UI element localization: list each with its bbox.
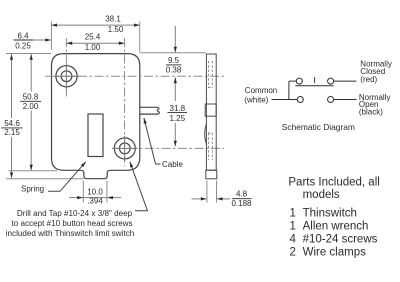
- terminal T4: [328, 97, 334, 103]
- svg-text:9.5: 9.5: [168, 56, 180, 65]
- hole H2 outer: [114, 138, 135, 159]
- hole H1 inner: [61, 71, 72, 82]
- dim 6.4 arrow: [33, 39, 51, 41]
- stub to NC pole: [289, 80, 296, 82]
- ext line side right: [216, 181, 218, 203]
- side body: [206, 54, 216, 170]
- svg-text:Allen wrench: Allen wrench: [303, 221, 369, 233]
- svg-text:.394: .394: [87, 197, 103, 206]
- fraction bars: [1, 40, 251, 199]
- bus vertical: [288, 81, 290, 99]
- centerline hole H2 horizontal: [112, 147, 224, 149]
- ext line plate left top: [50, 22, 52, 51]
- side cable tab: [205, 104, 216, 116]
- svg-text:1.25: 1.25: [170, 114, 186, 123]
- dim 10.0 line right: [107, 197, 121, 199]
- note drill-and-tap: [6, 209, 135, 238]
- svg-text:2: 2: [290, 246, 296, 258]
- dim 50.8 bottom arrow: [30, 111, 32, 171]
- contact bar: [295, 85, 333, 87]
- centerline hole H2 vertical: [124, 38, 126, 166]
- svg-text:(black): (black): [359, 108, 383, 117]
- svg-text:2.15: 2.15: [4, 128, 20, 137]
- ext line plate top right: [140, 52, 206, 54]
- terminal T1: [296, 78, 302, 84]
- svg-text:1: 1: [290, 208, 296, 220]
- svg-text:10.0: 10.0: [87, 187, 103, 196]
- ext line side left: [206, 181, 208, 203]
- svg-text:4.8: 4.8: [236, 189, 248, 198]
- centerline hole H1 horizontal: [45, 75, 225, 77]
- svg-text:Wire clamps: Wire clamps: [303, 246, 367, 258]
- svg-text:0.25: 0.25: [15, 41, 31, 50]
- svg-text:2.00: 2.00: [23, 102, 39, 111]
- svg-text:1.00: 1.00: [85, 43, 101, 52]
- svg-text:1: 1: [290, 221, 296, 233]
- ext line tab right: [106, 181, 108, 203]
- dim 10.0 line left: [69, 197, 83, 199]
- dim 54.6 top arrow: [11, 54, 13, 118]
- label common: [244, 59, 392, 116]
- terminal T3: [297, 97, 303, 103]
- spring slot: [88, 114, 103, 157]
- svg-text:included with Thinswitch limit: included with Thinswitch limit switch: [6, 229, 135, 238]
- dim 4.8 line left: [192, 198, 207, 200]
- svg-text:models: models: [303, 189, 340, 201]
- svg-text:(white): (white): [244, 95, 268, 104]
- svg-text:Common: Common: [245, 86, 277, 95]
- svg-text:25.4: 25.4: [85, 33, 101, 42]
- dim 50.8 top arrow: [30, 54, 32, 91]
- svg-text:Spring: Spring: [21, 185, 44, 194]
- svg-text:Cable: Cable: [162, 160, 183, 169]
- dim 9.5 line: [174, 26, 176, 52]
- wire NO: [334, 99, 357, 101]
- svg-text:0.38: 0.38: [166, 65, 182, 74]
- centerline hole H1 vertical: [65, 38, 67, 97]
- crosshair solid segments over holes: [54, 64, 137, 162]
- leader cable: [144, 118, 161, 164]
- svg-text:Drill and Tap #10-24 x 3/8" de: Drill and Tap #10-24 x 3/8" deep: [17, 209, 133, 218]
- svg-text:#10-24 screws: #10-24 screws: [303, 233, 378, 245]
- wire NC: [334, 80, 357, 82]
- svg-text:50.8: 50.8: [23, 93, 39, 102]
- wire common: [272, 99, 298, 101]
- dim 10.0 bar: [83, 197, 107, 199]
- side cable loop: [205, 123, 207, 144]
- terminal T2: [328, 78, 334, 84]
- ext line bottom edge left: [9, 170, 58, 172]
- svg-text:54.6: 54.6: [4, 119, 20, 128]
- svg-text:4: 4: [290, 233, 297, 245]
- hole H2 inner: [119, 143, 130, 154]
- svg-text:Parts Included, all: Parts Included, all: [288, 177, 379, 189]
- svg-text:Thinswitch: Thinswitch: [303, 208, 357, 220]
- side bottom tab: [206, 170, 217, 179]
- svg-text:31.8: 31.8: [170, 104, 186, 113]
- ext line tab left: [82, 181, 84, 203]
- svg-text:(red): (red): [360, 75, 377, 84]
- svg-text:Schematic Diagram: Schematic Diagram: [282, 122, 355, 132]
- leader drill: [130, 162, 148, 211]
- dim 38.1 line: [51, 24, 139, 26]
- ext line plate right top: [139, 22, 141, 53]
- hidden hole bottom: [208, 133, 210, 160]
- ext line tab bottom left: [6, 178, 84, 180]
- svg-text:6.4: 6.4: [17, 32, 29, 41]
- hole H1 outer: [56, 66, 77, 87]
- dim 54.6 bottom arrow: [11, 137, 13, 178]
- svg-text:to accept #10 button head scre: to accept #10 button head screws: [11, 219, 132, 228]
- dim 25.4 line: [66, 42, 124, 44]
- actuator tick: [314, 77, 316, 83]
- dim 31.8 bottom arrow: [174, 123, 176, 146]
- cable tab: [140, 107, 160, 114]
- dim 4.8 line right: [217, 198, 230, 200]
- svg-text:1.50: 1.50: [108, 25, 124, 34]
- svg-text:0.188: 0.188: [231, 199, 252, 208]
- dim 31.8 top arrow: [174, 78, 176, 102]
- dim 25.4 arrows: [66, 42, 124, 45]
- ext line plate top left: [6, 53, 51, 55]
- hidden hole top: [208, 61, 213, 160]
- svg-text:38.1: 38.1: [105, 15, 121, 24]
- plate outline: [52, 54, 140, 179]
- leader spring: [48, 162, 86, 192]
